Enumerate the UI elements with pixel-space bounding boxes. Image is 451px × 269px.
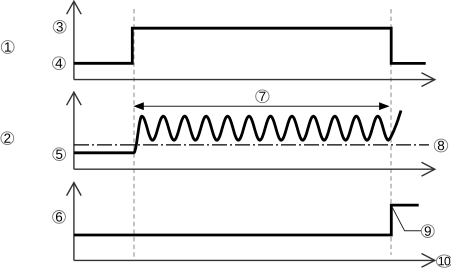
- circled label 6: [53, 211, 66, 224]
- dashed timing line right: [390, 9, 392, 255]
- waveform pulse top plot (4): [74, 28, 426, 63]
- leader line to label 9: [392, 207, 421, 231]
- circled label 8: [434, 139, 447, 152]
- vertical axis middle plot: [67, 92, 82, 169]
- vertical axis top plot (3): [67, 1, 82, 79]
- dashed timing line left: [133, 9, 135, 261]
- circled label 2: [1, 132, 14, 145]
- circled label 3: [53, 20, 66, 33]
- circled label 4: [53, 57, 66, 70]
- circled label 5: [53, 148, 66, 161]
- dash-dot reference level line (8): [74, 144, 429, 146]
- circled label 1: [1, 41, 14, 54]
- horizontal axis top plot: [74, 73, 435, 87]
- horizontal axis middle plot: [74, 162, 435, 176]
- circled label 10: [437, 255, 451, 267]
- horizontal axis bottom plot (10): [74, 254, 435, 268]
- dimension arrow span 7: [133, 102, 389, 110]
- waveform step bottom plot (6): [74, 205, 419, 235]
- circled label 9: [421, 225, 434, 238]
- oscillation waveform middle plot (5): [74, 111, 401, 153]
- vertical axis bottom plot: [67, 183, 82, 261]
- circled label 7: [256, 90, 269, 103]
